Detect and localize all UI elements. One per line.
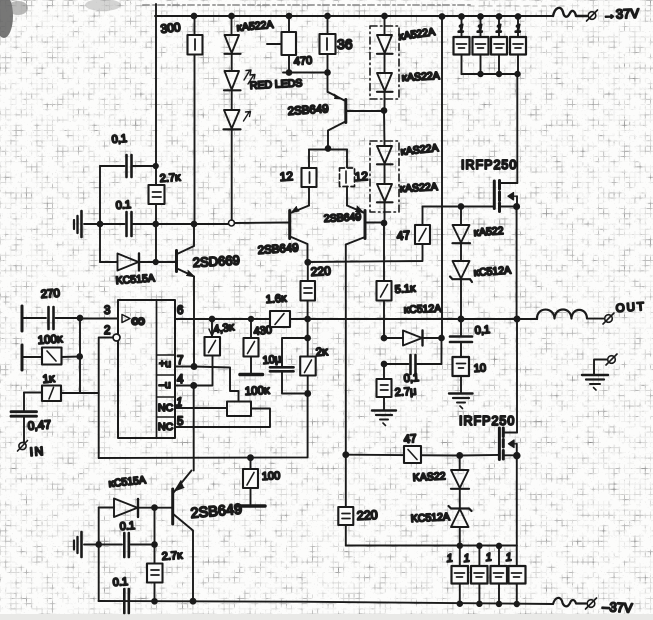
capacitor 0,1 mid [384, 363, 442, 365]
diode KA522 lower [459, 456, 461, 471]
wire gate line lower [343, 452, 348, 457]
svg-text:1: 1 [477, 23, 483, 35]
pin 4 [175, 356, 213, 386]
terminal IN [19, 442, 26, 449]
svg-text:220: 220 [310, 264, 331, 279]
wire feedback line y458 [99, 394, 308, 459]
resistor 12 left [308, 150, 310, 169]
svg-text:∞: ∞ [131, 310, 145, 332]
capacitor bank5 1 [459, 546, 461, 604]
svg-text:0,47: 0,47 [27, 417, 52, 433]
svg-text:–u: –u [159, 379, 171, 391]
svg-text:0.1: 0.1 [119, 520, 135, 533]
svg-text:2κ: 2κ [315, 346, 328, 359]
svg-text:270: 270 [40, 288, 60, 301]
ground bottom-left [84, 544, 99, 546]
capacitor 0.47 [23, 393, 25, 411]
svg-text:2SD669: 2SD669 [192, 253, 240, 270]
wire Q6 drain [501, 182, 518, 184]
pin 5 [175, 409, 270, 428]
diode D6 KA522A [377, 146, 392, 164]
wire Q6 source to output node [516, 207, 518, 320]
input terminal bar 1 [21, 306, 24, 331]
svg-text:220: 220 [356, 508, 378, 523]
wire Q1 emitter down [193, 277, 195, 367]
resistor 47 upper [308, 244, 423, 262]
svg-text:→37V: →37V [603, 6, 640, 22]
wire stub above rail corner [155, 4, 157, 16]
wire base line to Q3 [235, 222, 290, 225]
resistor 100k input [23, 356, 42, 358]
svg-text:1: 1 [463, 552, 470, 565]
svg-text:1: 1 [485, 551, 492, 564]
node Q6 source junction [514, 204, 519, 209]
pin 1 [175, 407, 227, 409]
terminal -37V [587, 600, 595, 608]
svg-text:IN: IN [29, 444, 45, 459]
svg-text:1: 1 [176, 397, 182, 409]
transistor Q3 2SB649 left [288, 211, 291, 239]
svg-text:0.1: 0.1 [115, 199, 131, 212]
svg-text:36: 36 [337, 36, 353, 52]
svg-text:300: 300 [160, 20, 182, 36]
opamp U1 box [118, 300, 175, 438]
svg-text:12: 12 [279, 169, 294, 184]
svg-text:0.1: 0.1 [112, 576, 128, 589]
potentiometer 100k [227, 402, 251, 417]
resistor 1k [24, 392, 42, 394]
resistor 430 [250, 319, 252, 338]
svg-text:12: 12 [354, 169, 369, 184]
diode KC512A right zener [453, 261, 470, 279]
resistor 12 right (dashed) [346, 150, 348, 169]
wire Q7 source down [516, 444, 518, 546]
wire -37V bottom rail [99, 601, 554, 604]
resistor 100 [250, 458, 252, 469]
capacitor bank4 1 [516, 14, 521, 19]
transistor Q4 2SB649 right [364, 211, 367, 239]
svg-text:+u: +u [159, 358, 171, 370]
pin 7 [175, 367, 239, 402]
wire Q6 drain to rail [516, 74, 518, 183]
wire Q5 emitter vertical [193, 386, 195, 471]
svg-text:1.6κ: 1.6κ [265, 293, 287, 306]
svg-text:7: 7 [177, 355, 183, 367]
svg-text:NC: NC [158, 402, 174, 414]
capacitor bank2 1 [478, 14, 483, 19]
node cap junction [382, 362, 387, 367]
svg-text:1: 1 [505, 551, 512, 564]
capacitor bank6 1 [478, 546, 480, 604]
ground mid [372, 409, 396, 411]
resistor 1.6k [270, 311, 290, 327]
terminal OUT [605, 315, 613, 323]
wire output node to Q7 drain [516, 319, 518, 433]
resistor 2.7u [383, 364, 385, 379]
ground right [582, 374, 608, 376]
svg-text:470: 470 [293, 55, 312, 68]
pin 3 [80, 318, 118, 320]
resistor 36 [325, 14, 330, 19]
resistor 2.7k lower [154, 508, 156, 564]
svg-text:100κ: 100κ [37, 333, 63, 347]
dashed box KA522A pair 1 [370, 26, 399, 99]
svg-text:0,1: 0,1 [111, 133, 127, 146]
svg-text:10: 10 [473, 362, 486, 375]
resistor 220 upper [307, 262, 309, 281]
capacitor 0.1 lower second [123, 589, 126, 613]
wire 470/36 bottom [283, 72, 328, 74]
svg-text:0,1: 0,1 [474, 324, 490, 337]
svg-text:κC512A: κC512A [404, 303, 442, 316]
svg-text:1: 1 [446, 552, 453, 565]
resistor 4,3k [211, 319, 213, 337]
svg-text:3: 3 [104, 305, 110, 317]
resistor 470 [287, 14, 292, 19]
input terminal bar 2 [21, 345, 24, 370]
terminal +37V [588, 12, 596, 20]
node diode anode junction [382, 336, 387, 341]
fuse squiggle bottom [553, 598, 586, 606]
LED chain KA522A [229, 14, 234, 19]
svg-text:6: 6 [177, 305, 183, 317]
wire source line lower y545 [346, 545, 517, 547]
node Q7 source junction [514, 453, 520, 459]
LED D2 [225, 71, 240, 90]
node open circle LED bottom [229, 220, 235, 226]
capacitor 0,1 upper-left second [100, 223, 155, 225]
svg-text:OUT: OUT [615, 301, 646, 315]
transistor Q1 2SD669 [175, 251, 178, 272]
wire Q6 source [501, 206, 517, 208]
resistor 300 [192, 14, 197, 19]
capacitor bank3 1 [497, 14, 502, 19]
diode D5 KA522A [377, 73, 392, 91]
wire Q7 drain [504, 432, 517, 434]
fuse squiggle top [553, 8, 587, 17]
inductor L1 [537, 310, 587, 320]
wire +37V top rail [155, 15, 553, 17]
svg-text:2.7μ: 2.7μ [394, 386, 416, 399]
svg-text:–37V: –37V [602, 599, 633, 616]
svg-text:0,1: 0,1 [403, 372, 419, 385]
svg-text:2.7κ: 2.7κ [159, 172, 181, 185]
resistor 2k [307, 338, 309, 357]
wire Q4 collector vertical (VAS node) [345, 245, 347, 508]
svg-text:1: 1 [515, 23, 521, 35]
svg-text:1κ: 1κ [42, 373, 56, 386]
svg-text:5: 5 [177, 416, 183, 428]
wire Q7 body arrow [509, 440, 517, 448]
wire Q2 base to diode chain [347, 110, 384, 112]
wire y224 to LED chain [155, 223, 228, 225]
svg-text:5.1κ: 5.1κ [394, 283, 416, 296]
svg-text:100: 100 [262, 470, 281, 483]
wire bottom-left loop [98, 508, 100, 602]
wire gate line upper [423, 206, 495, 208]
wire left vertical from rail [155, 16, 157, 185]
diode KC515A upper [100, 261, 118, 263]
svg-text:47: 47 [403, 433, 417, 446]
svg-text:KC512A: KC512A [411, 511, 451, 525]
svg-text:47: 47 [396, 228, 411, 243]
capacitor bank7 1 [498, 546, 500, 604]
svg-text:100κ: 100κ [245, 385, 271, 398]
svg-text:κA522: κA522 [473, 225, 504, 239]
svg-text:KAS22: KAS22 [413, 470, 446, 484]
resistor 5.1k [383, 223, 385, 281]
diode KA522 right [460, 207, 462, 226]
svg-text:1: 1 [496, 23, 502, 35]
diode D7 KA522A [377, 184, 392, 202]
node mirror top junction [326, 146, 331, 151]
opamp triangle symbol [122, 315, 130, 323]
wire left loop vertical [99, 166, 101, 262]
svg-text:κAS22A: κAS22A [402, 70, 441, 84]
capacitor 0.1 lower first [99, 544, 155, 546]
wire current mirror top [309, 149, 347, 151]
resistor 2.7k upper [149, 185, 165, 204]
terminal gnd right [608, 356, 616, 364]
wire Q6 body arrow [508, 193, 517, 200]
dark smudge top-left corner [0, 0, 13, 38]
resistor 47 lower [404, 446, 421, 463]
svg-text:4: 4 [177, 374, 184, 386]
pin 2 [113, 334, 120, 341]
torn page edge top [143, 4, 470, 6]
capacitor 270 [23, 317, 46, 319]
capacitor 10 output [460, 343, 462, 358]
capacitor 10u [307, 319, 309, 338]
svg-text:2SB649: 2SB649 [324, 211, 362, 225]
capacitor 0,1 upper-left first [100, 165, 155, 167]
ground output [449, 392, 473, 394]
capacitor 0,1 output [460, 319, 462, 336]
svg-text:10μ: 10μ [262, 353, 282, 367]
wire 5.1k bottom down [383, 301, 385, 339]
svg-text:IRFP250: IRFP250 [461, 158, 517, 172]
dashed box KA522A pair 2 [370, 141, 399, 212]
wire main output line y319 [175, 318, 537, 320]
LED D3 [224, 110, 240, 129]
transistor Q5 2SB649 lower [171, 489, 174, 524]
capacitor bank top wire [462, 73, 518, 75]
svg-text:2: 2 [104, 325, 110, 337]
capacitor bank8 1 [516, 546, 518, 605]
wire input node vertical [79, 318, 81, 393]
wire Q7 source [504, 454, 517, 456]
diode KC512A mid [384, 337, 403, 339]
capacitor bank1 1 [459, 14, 464, 19]
node Q2 base junction [382, 108, 387, 113]
transistor Q2 2SB649 upper [344, 100, 347, 123]
wire bootstrap vertical x442 [440, 14, 445, 19]
ground upper-left [84, 223, 100, 225]
resistor 220 lower [338, 507, 353, 525]
diode D4 KA522A [377, 35, 392, 53]
diode D1 [225, 35, 240, 53]
diode KC512A lower zener [449, 506, 472, 511]
svg-text:NC: NC [158, 421, 174, 433]
svg-text:IRFP250: IRFP250 [459, 414, 515, 428]
svg-text:2.7κ: 2.7κ [161, 550, 183, 563]
svg-text:κAS22A: κAS22A [400, 181, 439, 195]
svg-text:1: 1 [458, 23, 464, 35]
svg-text:430: 430 [253, 324, 273, 338]
wire Q2 collector down [328, 122, 346, 149]
junction [154, 164, 158, 168]
